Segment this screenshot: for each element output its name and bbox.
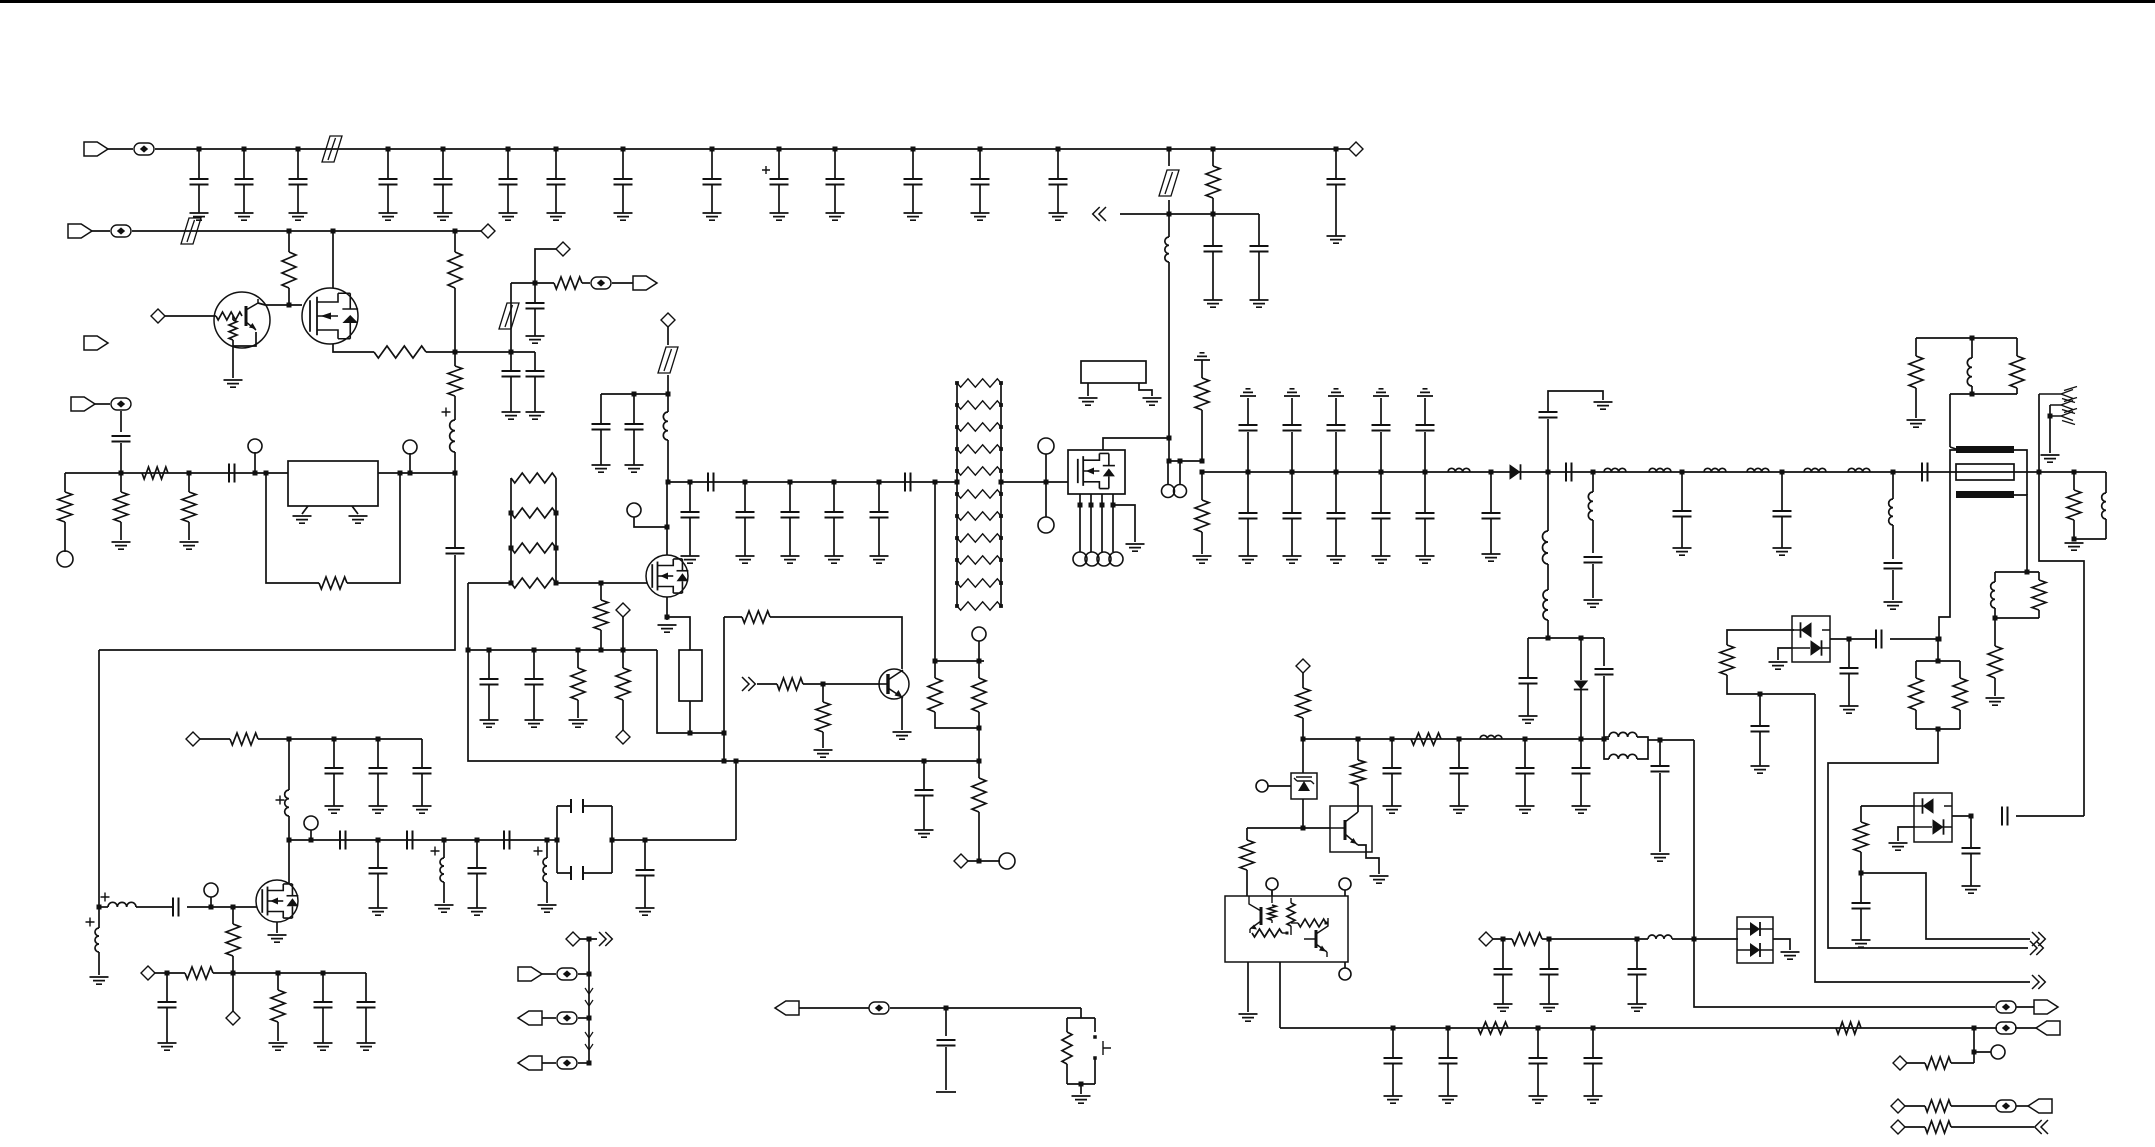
capacitor C-1292d xyxy=(1291,472,1293,513)
pin P-1272 xyxy=(1266,878,1278,890)
wire w-973b xyxy=(213,972,366,974)
ground GND xyxy=(1840,706,1859,713)
capacitor C-1336 xyxy=(1335,149,1337,179)
ground GND-1916 xyxy=(1907,420,1926,427)
junction J xyxy=(999,480,1004,485)
ground GND xyxy=(468,908,487,915)
wire w-1106a xyxy=(1905,1105,1925,1107)
wire w-pp-bot xyxy=(1995,617,2039,619)
inductor L-444 xyxy=(440,858,444,882)
junction J xyxy=(710,147,715,152)
junction J xyxy=(1658,738,1663,743)
junction J xyxy=(1891,470,1896,475)
wire w-corner xyxy=(1258,213,1260,215)
jumper JP5 xyxy=(658,347,678,373)
wire w-q3s xyxy=(666,597,668,620)
wire w-q1gnd xyxy=(232,346,234,378)
pin P-634 xyxy=(627,503,641,517)
resistor R-935 xyxy=(928,678,942,712)
junction J xyxy=(287,838,292,843)
inductor L-472c xyxy=(1649,468,1671,472)
wire w-t1b xyxy=(1950,447,1956,449)
mosfet Q5 xyxy=(1077,459,1079,483)
capacitor C-1538 xyxy=(1537,1028,1539,1058)
pin P xyxy=(1097,552,1111,566)
wire w-z1b xyxy=(1302,718,1304,739)
resistor R-1916b xyxy=(1909,678,1923,710)
ground GND xyxy=(870,556,889,563)
capacitor C-1682 xyxy=(1681,472,1683,511)
resistor R-q2s xyxy=(374,346,426,358)
wire w-121d xyxy=(120,522,122,540)
capacitor C-477 xyxy=(476,840,478,868)
wire w-547b xyxy=(546,882,548,903)
inductor L-472g xyxy=(1848,468,1870,472)
mosfet Q3 xyxy=(646,555,688,597)
inductor L-1593 xyxy=(1588,492,1593,520)
wire w-1548c xyxy=(1547,620,1549,638)
wire w-2017a xyxy=(2016,338,2018,356)
wire w-pr2c xyxy=(1915,710,1917,729)
wire w-u5p1 xyxy=(1271,890,1273,896)
ground GND xyxy=(1283,556,1302,563)
capacitor C14 xyxy=(1057,149,1059,179)
ground GND-578 xyxy=(569,720,588,727)
wire w-fb4 xyxy=(770,617,902,669)
wire w-623c xyxy=(622,700,624,730)
pin P-1168 xyxy=(1162,485,1175,498)
wire w-1052 xyxy=(1974,1051,1991,1053)
wire w-db2o xyxy=(1952,815,1971,817)
capacitor C-214b xyxy=(1258,214,1260,246)
wire w-1604b xyxy=(1603,676,1605,737)
wire w-db1o xyxy=(1830,638,1876,640)
wire w-1127a xyxy=(1905,1126,1925,1128)
capacitor C5 xyxy=(442,149,444,179)
wire w-fb1 xyxy=(266,473,319,583)
wire w-u5gnd xyxy=(1247,962,1249,1012)
wire w-ant1 xyxy=(2038,394,2040,472)
wire w-979c xyxy=(978,761,980,778)
capacitor C-639 xyxy=(1876,630,1882,649)
capacitor C1 xyxy=(198,149,200,179)
inductor L-547 xyxy=(543,858,547,882)
connector J2 xyxy=(68,224,92,238)
wire rail2-a xyxy=(92,230,110,232)
bead FB8 xyxy=(557,1012,577,1024)
wire w-1063a xyxy=(1907,1062,1925,1064)
connector J1 xyxy=(84,142,108,156)
node N-573 xyxy=(566,932,580,946)
junction J xyxy=(1178,459,1183,464)
wire w-db2b xyxy=(1861,805,1914,807)
inductor L-1548a xyxy=(1543,531,1548,564)
wire w-q7d xyxy=(288,840,290,883)
ground GND-1593 xyxy=(1584,600,1603,607)
ground GND xyxy=(1450,806,1469,813)
junction J xyxy=(321,971,326,976)
box crystal X1 xyxy=(679,650,702,701)
resistor R-973 xyxy=(185,967,213,979)
inductor L-939 xyxy=(1648,935,1672,939)
ground GND-q6 xyxy=(1370,876,1389,883)
wire w-z1c xyxy=(1302,739,1304,773)
wire rail1-a xyxy=(108,148,133,150)
wire w-1213a xyxy=(1212,149,1214,166)
ground GND xyxy=(1852,940,1871,947)
wire w-623b xyxy=(622,650,624,668)
resistor R-1727 xyxy=(1720,645,1734,675)
capacitor C-1292u xyxy=(1291,432,1293,472)
ground GND xyxy=(1383,806,1402,813)
wire w-623a xyxy=(622,617,624,650)
wire w-trio2 xyxy=(542,1017,556,1019)
wire u2-pins xyxy=(1080,494,1113,552)
ground GND-189 xyxy=(180,542,199,549)
bead FB9 xyxy=(557,1057,577,1069)
junction J xyxy=(1758,692,1763,697)
capacitor C-645 xyxy=(644,840,646,870)
pin P-410 xyxy=(403,440,417,454)
resistor R-289 xyxy=(282,252,296,288)
junction J xyxy=(242,147,247,152)
resistor R-189 xyxy=(182,492,196,522)
junction J xyxy=(922,759,927,764)
wire w-283b xyxy=(582,282,590,284)
wire w-q2d xyxy=(332,231,334,288)
junction J xyxy=(466,648,471,653)
wire w-404 xyxy=(95,403,110,405)
resistor R-1106 xyxy=(1925,1100,1951,1112)
junction J xyxy=(599,648,604,653)
wire w-289a xyxy=(288,231,290,252)
wire w-979a xyxy=(978,661,980,678)
wire w-935b xyxy=(935,712,979,728)
wire net-761 xyxy=(468,650,979,761)
bead FB10 xyxy=(869,1002,889,1014)
inductor L-1972 xyxy=(1967,358,1972,386)
pin P-311 xyxy=(304,816,318,830)
wire w-u5p2 xyxy=(1344,890,1346,896)
inductor L-99v xyxy=(95,928,99,952)
capacitor C-946 xyxy=(945,1008,947,1036)
capacitor C-1893 xyxy=(1884,563,1903,569)
junction J xyxy=(276,971,281,976)
wire w-1202b xyxy=(1201,410,1203,461)
junction J xyxy=(576,648,581,653)
wire w-1247b xyxy=(1246,870,1248,896)
ground GND xyxy=(1439,1096,1458,1103)
wire w-db1a xyxy=(1727,630,1794,645)
wire w-t1sec xyxy=(1939,450,1956,639)
ground GND-444 xyxy=(435,905,454,912)
wire w-q4c xyxy=(803,683,880,685)
wire w-z1pin xyxy=(1268,785,1291,787)
wire w-pr-top xyxy=(935,660,984,662)
wire w-444b xyxy=(443,882,445,903)
wire w-935v xyxy=(934,482,936,661)
wire w-189a xyxy=(188,473,190,492)
wire net-472 xyxy=(1202,471,1956,473)
wire w-lp4 xyxy=(1648,739,1660,741)
ground GND xyxy=(158,1043,177,1050)
wire w-1893c xyxy=(1892,570,1894,600)
wire w-db1b xyxy=(1727,675,1815,694)
pin P-65 xyxy=(57,551,73,567)
filter F1 xyxy=(557,806,612,873)
wire w-1974 xyxy=(1973,1028,1975,1063)
capacitor C-1760 xyxy=(1759,694,1761,726)
pin P xyxy=(1085,552,1099,566)
pin P-1998 xyxy=(1991,1045,2005,1059)
node N-623b xyxy=(616,730,630,744)
junction J xyxy=(1680,470,1685,475)
junction J xyxy=(487,648,492,653)
junction J xyxy=(398,471,403,476)
box mosfet U2 xyxy=(1068,450,1125,494)
ground GND-1893 xyxy=(1884,602,1903,609)
inductor L-472e xyxy=(1747,468,1769,472)
ground GND-q7 xyxy=(268,935,287,942)
node N-961 xyxy=(954,854,968,868)
winding-shield T1-bot xyxy=(1956,491,2014,498)
junction J xyxy=(1579,636,1584,641)
junction J xyxy=(587,937,592,942)
wire w-fb-rail xyxy=(723,617,725,761)
wire net-840 xyxy=(289,839,547,841)
pin P-1046a xyxy=(1038,438,1054,454)
ground GND xyxy=(1482,554,1501,561)
wire w-1995b xyxy=(1994,608,1996,618)
ground GND xyxy=(681,556,700,563)
capacitor C13 xyxy=(979,149,981,179)
capacitor C-1336d xyxy=(1335,472,1337,513)
wire w-1063b xyxy=(1951,1062,1974,1064)
resistor R-1303 xyxy=(1296,688,1310,718)
junction J xyxy=(296,147,301,152)
junction J xyxy=(119,471,124,476)
wire net-650R xyxy=(468,649,657,651)
wire w-289d xyxy=(288,739,290,790)
capacitor C3 xyxy=(297,149,299,179)
resistor R-473 xyxy=(142,467,168,479)
ground GND xyxy=(614,213,633,220)
wire w-t1r1 xyxy=(2014,450,2027,495)
wire w-1593a xyxy=(1592,472,1594,492)
ground GND xyxy=(1519,716,1538,723)
ground GND xyxy=(1373,389,1389,396)
inductor L-pair xyxy=(1609,732,1637,737)
wire w-u2gnd xyxy=(1113,505,1135,542)
junction J xyxy=(1167,147,1172,152)
junction J xyxy=(1970,392,1975,397)
wire w-2084rail xyxy=(2039,472,2084,816)
wire w-1169b xyxy=(1168,200,1170,214)
wire w-fb3 xyxy=(724,616,742,618)
pin P-1046b xyxy=(1038,517,1054,533)
ground GND xyxy=(325,806,344,813)
wire w-1660b xyxy=(1659,773,1661,852)
capacitor C-482t xyxy=(905,473,911,492)
wire w-211 xyxy=(210,897,212,907)
ground GND xyxy=(499,213,518,220)
wire w-db1g xyxy=(1778,648,1792,660)
capacitor C-816 xyxy=(2002,807,2008,826)
capacitor C16 xyxy=(789,482,791,512)
node N-148 xyxy=(141,966,155,980)
wire w-861 xyxy=(968,860,1000,862)
pin P-1007 xyxy=(999,853,1015,869)
wire w-trio-v xyxy=(588,939,590,1063)
junction J xyxy=(933,659,938,664)
junction J xyxy=(1635,937,1640,942)
wire w-pr2b xyxy=(1915,661,1917,678)
junction J xyxy=(1167,212,1172,217)
junction J xyxy=(1523,737,1528,742)
wire w-x1b xyxy=(689,701,691,733)
junction J xyxy=(545,838,550,843)
wire w-65b xyxy=(64,522,66,552)
wire w-pc2 xyxy=(1179,461,1181,484)
junction J xyxy=(197,147,202,152)
wire w-z1d xyxy=(1302,799,1304,828)
wire w-pr2bot xyxy=(1916,728,1960,730)
pin P-1262 xyxy=(1256,780,1268,792)
wire w-283c xyxy=(612,282,633,284)
ground GND xyxy=(781,556,800,563)
capacitor C-907 xyxy=(173,898,179,917)
jumper JP1 xyxy=(322,136,342,162)
junction J xyxy=(532,648,537,653)
junction J xyxy=(788,480,793,485)
capacitor C-323 xyxy=(322,973,324,1002)
ground GND-u1a xyxy=(293,516,312,523)
capacitor C-840b xyxy=(407,831,413,850)
junction J xyxy=(1246,470,1251,475)
wire w-278a xyxy=(277,973,279,990)
pin P-255 xyxy=(248,439,262,453)
resistor R-65 xyxy=(58,492,72,522)
wire w-1028b xyxy=(2015,1027,2036,1029)
junction J xyxy=(309,838,314,843)
wire w-d2a xyxy=(1580,638,1582,680)
resistor R-q4b xyxy=(777,678,803,690)
capacitor C-1782 xyxy=(1781,472,1783,511)
junction J xyxy=(376,737,381,742)
wire w-939b xyxy=(1542,938,1648,940)
capacitor C-1525 xyxy=(1524,739,1526,768)
ground GND xyxy=(1250,300,1269,307)
wire w-x2a xyxy=(1087,383,1089,396)
wire w-f1b xyxy=(612,839,645,841)
node VCC1 xyxy=(1349,142,1363,156)
wire w-d2b xyxy=(1580,690,1582,739)
junction J xyxy=(1591,470,1596,475)
junction J xyxy=(1356,737,1361,742)
wire w-rn1L xyxy=(510,478,512,583)
junction J xyxy=(832,480,837,485)
wire w-1548up xyxy=(1548,391,1603,412)
wire w-2074a xyxy=(2073,472,2075,490)
junction J xyxy=(231,971,236,976)
capacitor C-534 xyxy=(533,650,535,679)
capacitor C-1604 xyxy=(1595,669,1614,675)
capacitor C7 xyxy=(555,149,557,179)
wire w-q3box xyxy=(667,617,690,650)
junction J xyxy=(376,838,381,843)
capacitor C-535a xyxy=(534,283,536,303)
inductor L-99h xyxy=(108,902,136,907)
switch-network SW1 xyxy=(1067,1018,1095,1084)
wire w-1593b xyxy=(1592,520,1594,553)
ground GND xyxy=(1773,548,1792,555)
capacitor C-1448 xyxy=(1447,1028,1449,1058)
wire w-1995d xyxy=(1994,678,1996,696)
capacitor C-511 xyxy=(510,352,512,371)
bead FB4 xyxy=(111,398,131,410)
wire w-352a xyxy=(426,351,455,353)
connector J3 xyxy=(84,336,108,350)
resistor R7 xyxy=(957,423,1001,431)
connector OUT4 xyxy=(599,932,612,946)
antenna E1 xyxy=(2039,387,2077,403)
diode-pair DB2 xyxy=(1914,793,1952,842)
junction J xyxy=(1457,737,1462,742)
ground GND xyxy=(369,908,388,915)
capacitor C-1660 xyxy=(1659,740,1661,766)
wire w-lp2 xyxy=(1604,740,1609,759)
wire w-1995a xyxy=(1994,572,1996,582)
junction J xyxy=(187,471,192,476)
connector OUT1 xyxy=(2030,941,2043,955)
capacitor C-840a xyxy=(340,831,346,850)
resistor R4 xyxy=(511,578,556,588)
connector IN2 xyxy=(742,677,755,691)
junction J xyxy=(554,147,559,152)
wire w-1202a xyxy=(1201,360,1203,378)
resistor R9 xyxy=(957,467,1001,475)
ground GND xyxy=(1284,389,1300,396)
ground GND xyxy=(369,806,388,813)
wire w-q4a xyxy=(757,683,777,685)
wire w-289c xyxy=(288,816,290,840)
junction J xyxy=(722,731,727,736)
junction J xyxy=(643,838,648,843)
junction J xyxy=(331,229,336,234)
resistor R-1358 xyxy=(1351,760,1365,785)
ground GND xyxy=(547,213,566,220)
junction J xyxy=(610,838,615,843)
resistor R6 xyxy=(957,401,1001,409)
wire w-1169d xyxy=(1168,262,1170,438)
ground GND-x2b xyxy=(1143,398,1162,405)
ground GND xyxy=(314,1043,333,1050)
ground GND-x2a xyxy=(1079,398,1098,405)
junction J xyxy=(1334,470,1339,475)
junction J xyxy=(734,759,739,764)
ground GND-db2 xyxy=(1889,843,1908,850)
diode D5 xyxy=(1750,922,1760,936)
junction J xyxy=(688,731,693,736)
junction J xyxy=(1044,480,1049,485)
junction J xyxy=(1167,459,1172,464)
ground GND-1202b xyxy=(1193,556,1212,563)
wire w-668d xyxy=(667,440,669,482)
diode D3 xyxy=(1923,798,1934,813)
optocoupler U5 xyxy=(1225,896,1348,962)
capacitor C-1593 xyxy=(1584,557,1603,563)
capacitor C-1393 xyxy=(1392,1028,1394,1058)
